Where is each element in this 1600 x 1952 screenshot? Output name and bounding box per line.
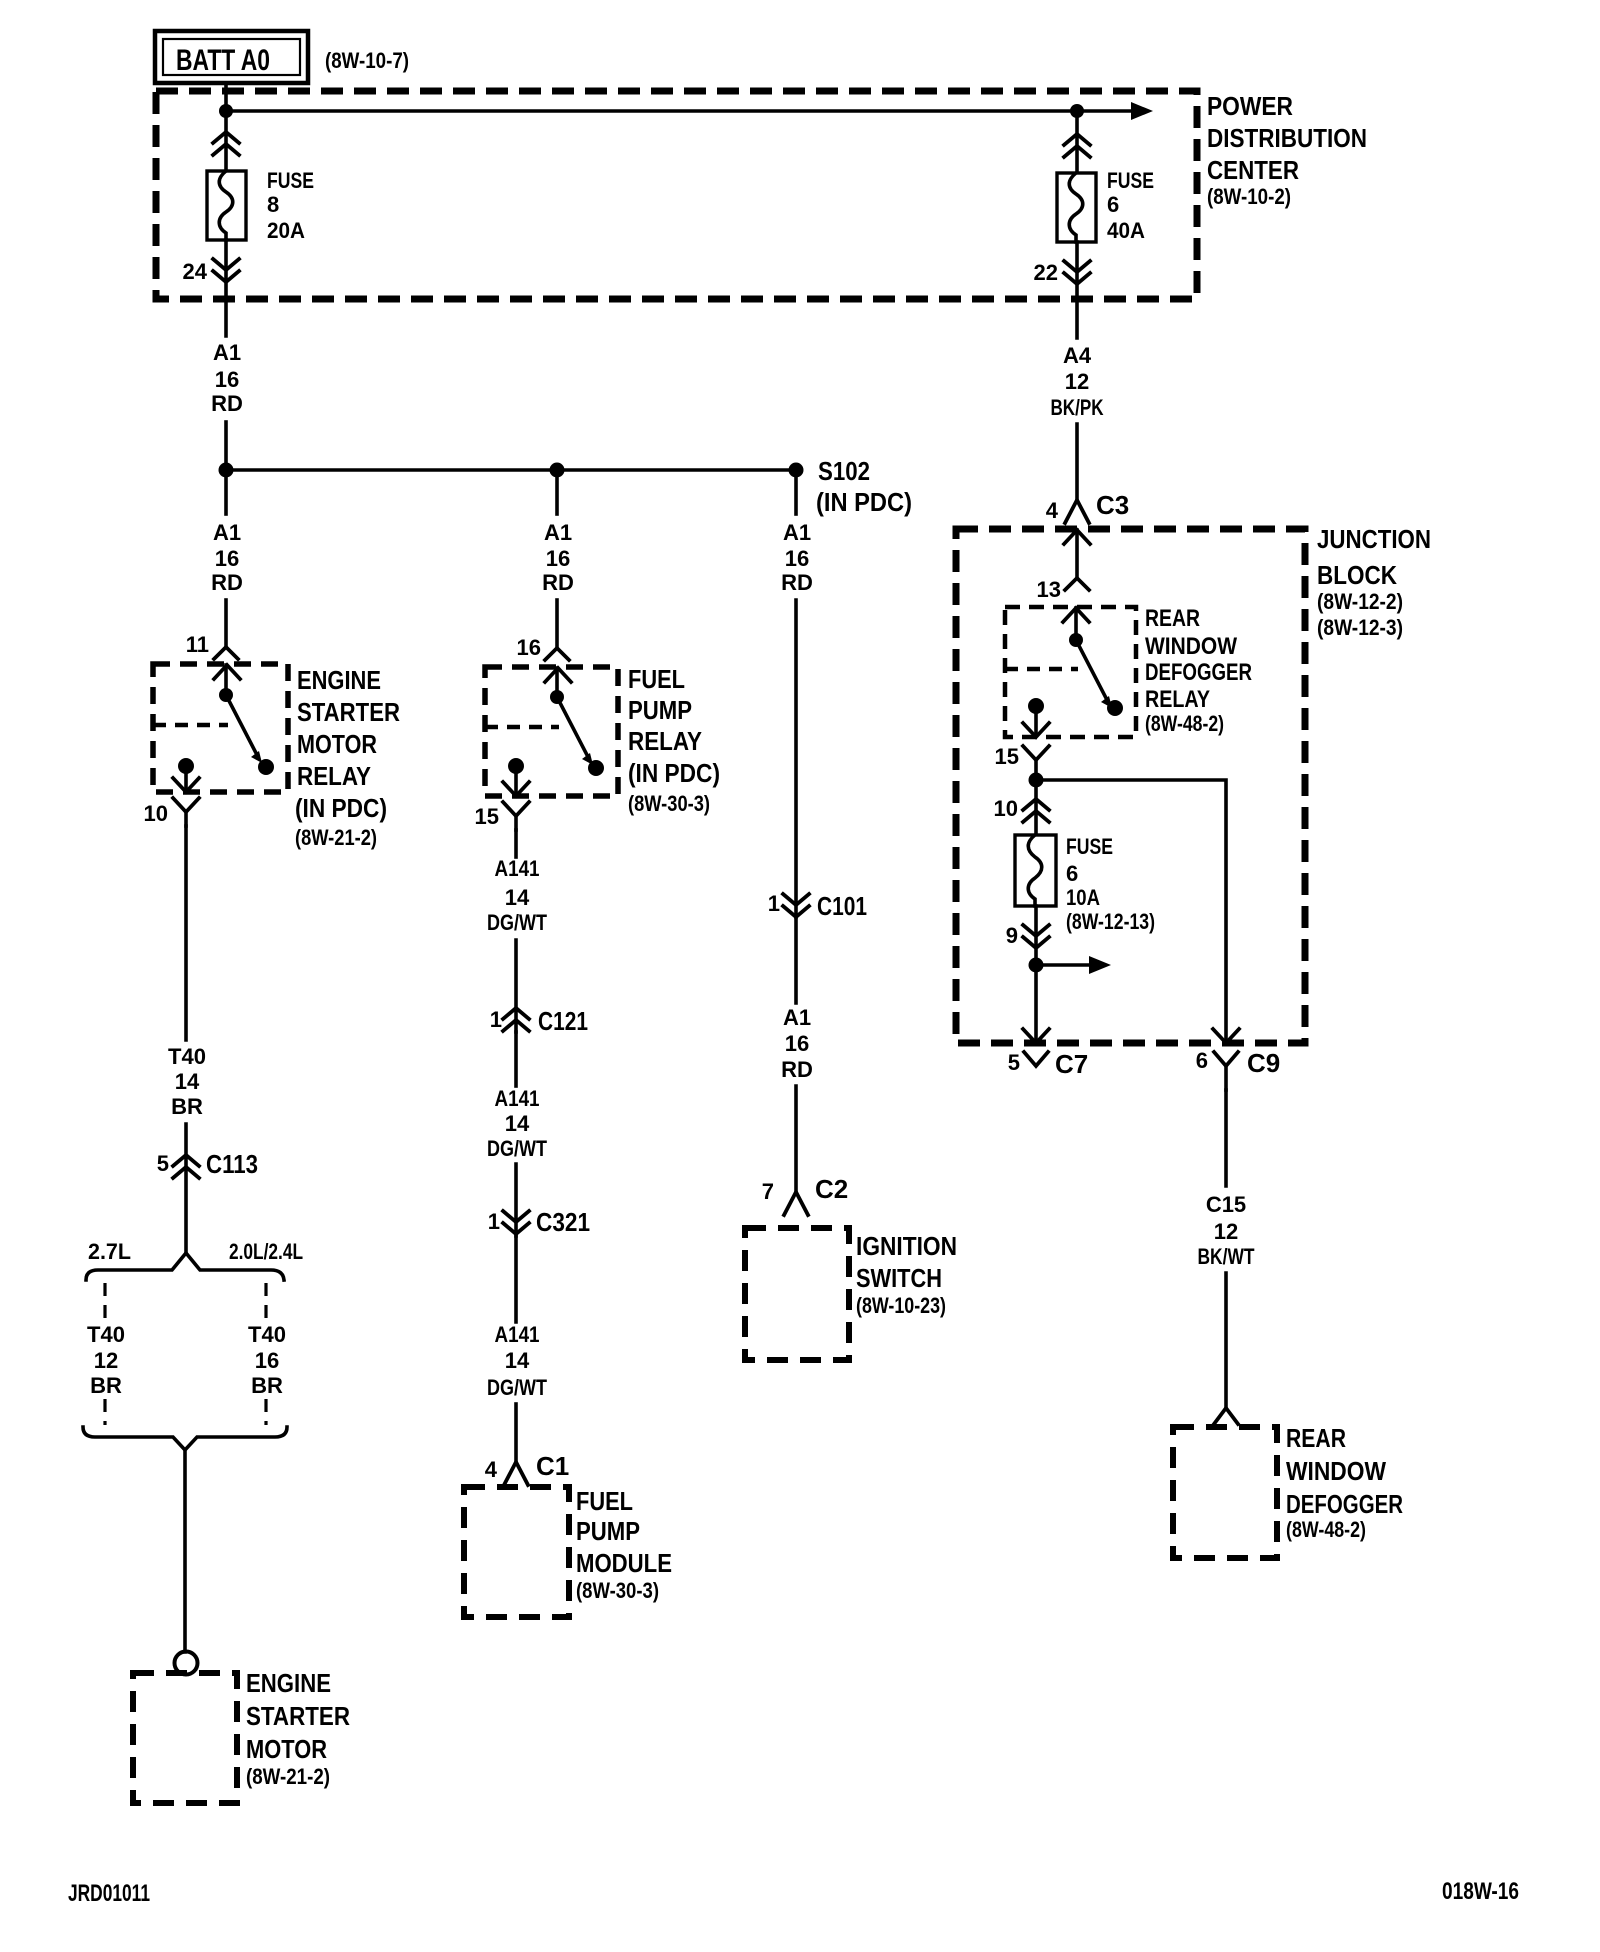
label POWER DISTRIBUTION CENTER xyxy=(1207,91,1367,209)
wire label T40 12 BR xyxy=(87,1322,125,1398)
svg-text:4: 4 xyxy=(1046,498,1059,523)
svg-text:16: 16 xyxy=(517,635,541,660)
power distribution center dashed box xyxy=(156,91,1197,299)
svg-text:16: 16 xyxy=(546,546,570,571)
label ENGINE STARTER MOTOR RELAY xyxy=(295,665,400,850)
relay switch arm xyxy=(557,697,593,765)
connector chevrons below fuse 8 (pin 24) xyxy=(213,259,239,282)
svg-text:BK/PK: BK/PK xyxy=(1051,395,1104,420)
wire from bus to fuse 6 xyxy=(1075,111,1079,173)
wire label C15 12 BK/WT xyxy=(1198,1192,1255,1269)
relay output pin dot xyxy=(508,758,524,774)
relay contact dot xyxy=(1107,700,1123,716)
svg-text:A1: A1 xyxy=(783,520,811,545)
svg-text:9: 9 xyxy=(1006,923,1018,948)
engine starter motor relay box xyxy=(153,664,288,792)
junction at right bus xyxy=(1070,104,1084,118)
wire leaving PDC right xyxy=(1075,242,1079,338)
connector fork pin 16 xyxy=(545,648,569,660)
junction at left bus xyxy=(219,104,233,118)
ring terminal xyxy=(175,1652,198,1675)
label FUEL PUMP MODULE xyxy=(576,1486,672,1603)
relay switch arm xyxy=(226,695,262,763)
connector fork pin 4 C3 xyxy=(1065,500,1089,523)
svg-text:24: 24 xyxy=(183,259,208,284)
wire label A1 16 RD (col2) xyxy=(542,520,574,595)
svg-text:(8W-48-2): (8W-48-2) xyxy=(1145,711,1224,736)
connector fork pin 13 xyxy=(1065,578,1089,590)
connector chevrons below fuse (pin 9) xyxy=(1023,925,1049,948)
wire label A141 14 DG/WT second xyxy=(487,1086,547,1161)
relay internal divider xyxy=(153,723,228,728)
svg-text:POWER: POWER xyxy=(1207,91,1293,121)
svg-text:16: 16 xyxy=(785,1031,809,1056)
svg-text:(8W-10-2): (8W-10-2) xyxy=(1207,184,1291,209)
svg-text:(8W-12-2): (8W-12-2) xyxy=(1317,589,1403,614)
svg-text:C9: C9 xyxy=(1247,1048,1280,1078)
relay pivot dot xyxy=(550,690,564,704)
wire down col1 xyxy=(184,826,188,1040)
engine starter motor box xyxy=(133,1673,237,1803)
svg-text:C3: C3 xyxy=(1096,490,1129,520)
svg-text:FUSE: FUSE xyxy=(267,168,314,193)
relay contact dot xyxy=(588,760,604,776)
wire to engine starter motor xyxy=(183,1450,187,1652)
svg-text:15: 15 xyxy=(475,804,499,829)
svg-text:WINDOW: WINDOW xyxy=(1286,1456,1386,1486)
svg-text:22: 22 xyxy=(1034,260,1058,285)
svg-text:11: 11 xyxy=(186,632,209,657)
junction block dashed box xyxy=(956,529,1305,1043)
svg-text:ENGINE: ENGINE xyxy=(246,1668,331,1698)
wire label A1 16 RD (col3) xyxy=(781,520,813,595)
relay pin arrow (pin 13 mating half) xyxy=(1063,608,1089,640)
wire to fuel pump relay xyxy=(555,600,559,648)
label REAR WINDOW DEFOGGER RELAY xyxy=(1145,605,1252,736)
relay output pin arrow down xyxy=(1023,706,1049,737)
wire stub col1 xyxy=(224,470,228,514)
svg-text:A4: A4 xyxy=(1063,343,1092,368)
svg-text:(IN PDC): (IN PDC) xyxy=(816,487,912,517)
svg-text:FUSE: FUSE xyxy=(1066,834,1113,859)
svg-text:6: 6 xyxy=(1066,861,1078,886)
svg-text:RD: RD xyxy=(211,391,243,416)
connector C113 chevrons xyxy=(173,1155,199,1178)
label IGNITION SWITCH xyxy=(856,1231,957,1318)
fuse 6 10A value label xyxy=(1066,834,1155,934)
svg-text:A141: A141 xyxy=(495,1322,540,1347)
svg-text:RELAY: RELAY xyxy=(297,761,371,791)
connector C321 chevrons xyxy=(503,1211,529,1234)
brace merge lower xyxy=(83,1427,287,1450)
relay pivot dot xyxy=(219,688,233,702)
svg-text:MOTOR: MOTOR xyxy=(297,729,377,759)
wire xyxy=(514,1032,518,1086)
connector chevrons below fuse 6 (pin 22) xyxy=(1064,261,1090,284)
wire down to splice xyxy=(224,422,228,470)
svg-text:FUSE: FUSE xyxy=(1107,168,1154,193)
svg-text:S102: S102 xyxy=(818,456,870,486)
relay internal divider xyxy=(1005,667,1078,672)
svg-text:DISTRIBUTION: DISTRIBUTION xyxy=(1207,123,1367,153)
wire to junction below fuse xyxy=(1034,906,1038,1042)
svg-text:(8W-21-2): (8W-21-2) xyxy=(295,825,377,850)
svg-text:DEFOGGER: DEFOGGER xyxy=(1286,1489,1403,1519)
connector fork pin 7 C2 xyxy=(784,1192,808,1215)
relay output pin arrow down xyxy=(173,766,199,792)
junction block entry arrow (C3 mating half) xyxy=(1064,530,1090,578)
svg-text:RD: RD xyxy=(781,570,813,595)
svg-text:8: 8 xyxy=(267,192,279,217)
fuse 8 20A xyxy=(207,171,246,240)
wire xyxy=(794,917,798,1003)
svg-text:14: 14 xyxy=(175,1069,200,1094)
svg-text:C101: C101 xyxy=(817,891,867,921)
svg-text:FUEL: FUEL xyxy=(628,664,685,694)
wire label T40 16 BR xyxy=(248,1322,286,1398)
svg-text:1: 1 xyxy=(768,891,780,916)
svg-text:10: 10 xyxy=(994,796,1018,821)
wire bus inside PDC with arrow xyxy=(226,102,1153,120)
relay pivot dot xyxy=(1069,633,1083,647)
wire xyxy=(514,940,518,1032)
svg-text:14: 14 xyxy=(505,1348,530,1373)
pin 6 arrow down at block edge xyxy=(1213,1029,1239,1043)
wire from junction to C9 branch xyxy=(1036,780,1226,1042)
connector C101 chevrons xyxy=(783,894,809,917)
wire label A141 14 DG/WT third xyxy=(487,1322,547,1400)
svg-text:C121: C121 xyxy=(538,1006,588,1036)
svg-text:5: 5 xyxy=(157,1151,169,1176)
svg-text:CENTER: CENTER xyxy=(1207,155,1299,185)
svg-text:(8W-48-2): (8W-48-2) xyxy=(1286,1517,1366,1542)
svg-text:(8W-21-2): (8W-21-2) xyxy=(246,1764,330,1789)
svg-text:WINDOW: WINDOW xyxy=(1145,633,1237,660)
svg-text:5: 5 xyxy=(1008,1050,1020,1075)
svg-text:A1: A1 xyxy=(213,520,241,545)
svg-text:SWITCH: SWITCH xyxy=(856,1263,942,1293)
wire xyxy=(514,1164,518,1236)
svg-text:14: 14 xyxy=(505,885,530,910)
svg-text:STARTER: STARTER xyxy=(297,697,400,727)
fuse 6 value label xyxy=(1107,168,1154,243)
wire label A4 12 BK/PK xyxy=(1051,343,1104,420)
svg-text:C1: C1 xyxy=(536,1451,569,1481)
wire dashed below right label xyxy=(264,1399,267,1425)
branch arrow to other circuits xyxy=(1036,956,1111,974)
svg-text:MODULE: MODULE xyxy=(576,1548,672,1578)
svg-text:A141: A141 xyxy=(495,1086,540,1111)
svg-text:12: 12 xyxy=(1214,1219,1238,1244)
svg-text:16: 16 xyxy=(785,546,809,571)
svg-text:7: 7 xyxy=(762,1179,774,1204)
svg-text:ENGINE: ENGINE xyxy=(297,665,381,695)
svg-text:14: 14 xyxy=(505,1111,530,1136)
svg-text:1: 1 xyxy=(488,1209,500,1234)
svg-text:6: 6 xyxy=(1196,1048,1208,1073)
connector fork pin 4 C1 xyxy=(504,1462,528,1485)
wire label T40 14 BR xyxy=(168,1044,206,1119)
wire to rear window defogger xyxy=(1224,1273,1228,1408)
junction dot in junction block xyxy=(1029,773,1044,788)
svg-text:RD: RD xyxy=(781,1057,813,1082)
svg-text:JUNCTION: JUNCTION xyxy=(1317,524,1431,554)
svg-text:(8W-30-3): (8W-30-3) xyxy=(576,1578,659,1603)
svg-text:018W-16: 018W-16 xyxy=(1442,1878,1519,1905)
wire 2.0L/2.4L branch dashed xyxy=(264,1283,267,1318)
wire label A1 16 RD (to ignition) xyxy=(781,1005,813,1082)
svg-text:BATT A0: BATT A0 xyxy=(176,44,270,77)
svg-text:MOTOR: MOTOR xyxy=(246,1734,327,1764)
svg-text:A141: A141 xyxy=(495,856,540,881)
svg-text:A1: A1 xyxy=(213,340,241,365)
svg-text:2.7L: 2.7L xyxy=(88,1239,131,1264)
svg-text:C321: C321 xyxy=(536,1207,590,1237)
svg-text:DEFOGGER: DEFOGGER xyxy=(1145,659,1252,686)
svg-text:RELAY: RELAY xyxy=(1145,686,1210,713)
svg-text:A1: A1 xyxy=(783,1005,811,1030)
svg-text:T40: T40 xyxy=(87,1322,125,1347)
junction dot middle xyxy=(550,463,565,478)
wire to fuel pump module xyxy=(514,1404,518,1462)
svg-text:RD: RD xyxy=(211,570,243,595)
label REAR WINDOW DEFOGGER xyxy=(1286,1423,1403,1542)
svg-text:(IN PDC): (IN PDC) xyxy=(628,758,720,788)
relay output pin dot xyxy=(178,758,194,774)
svg-text:RD: RD xyxy=(542,570,574,595)
svg-text:DG/WT: DG/WT xyxy=(487,1136,547,1161)
label JUNCTION BLOCK xyxy=(1317,524,1431,640)
svg-text:DG/WT: DG/WT xyxy=(487,1375,547,1400)
svg-text:1: 1 xyxy=(490,1007,502,1032)
svg-text:12: 12 xyxy=(1065,369,1089,394)
svg-text:16: 16 xyxy=(215,546,239,571)
fuel pump module box xyxy=(464,1487,569,1617)
pin 5 arrow down at block edge xyxy=(1023,1029,1049,1043)
wire down to C101 xyxy=(794,600,798,917)
wire label A1 16 RD (left, below PDC) xyxy=(211,340,243,416)
svg-text:6: 6 xyxy=(1107,192,1119,217)
splice bus S102 xyxy=(226,468,796,472)
node S102 label xyxy=(816,456,912,517)
svg-text:PUMP: PUMP xyxy=(628,695,692,725)
junction dot below fuse xyxy=(1029,958,1044,973)
label FUEL PUMP RELAY xyxy=(628,664,720,816)
svg-text:4: 4 xyxy=(485,1457,498,1482)
svg-text:REAR: REAR xyxy=(1145,605,1200,632)
wire stub col3 xyxy=(794,470,798,514)
wire from bus to fuse 8 xyxy=(224,111,228,171)
connector fork pin 11 xyxy=(214,647,238,659)
node BATT A0 feed box xyxy=(155,31,308,83)
wire to ignition switch xyxy=(794,1086,798,1192)
svg-text:JRD01011: JRD01011 xyxy=(68,1880,150,1907)
svg-text:13: 13 xyxy=(1037,577,1061,602)
relay internal divider xyxy=(485,725,559,730)
svg-text:DG/WT: DG/WT xyxy=(487,910,547,935)
wire from BATT A0 into PDC xyxy=(224,83,228,111)
svg-text:C113: C113 xyxy=(206,1149,258,1179)
wire 2.7L branch dashed xyxy=(103,1283,106,1318)
svg-text:REAR: REAR xyxy=(1286,1423,1346,1453)
svg-text:FUEL: FUEL xyxy=(576,1486,633,1516)
wire down col2 xyxy=(514,830,518,857)
svg-text:BK/WT: BK/WT xyxy=(1198,1244,1255,1269)
svg-text:16: 16 xyxy=(255,1348,279,1373)
svg-text:(8W-30-3): (8W-30-3) xyxy=(628,791,710,816)
fuse 8 value label xyxy=(267,168,314,243)
svg-text:20A: 20A xyxy=(267,218,305,243)
wire down to C3 xyxy=(1075,424,1079,500)
relay output pin dot xyxy=(1028,698,1044,714)
connector chevrons above fuse 8 xyxy=(213,132,239,155)
ignition switch box xyxy=(745,1228,849,1360)
svg-text:40A: 40A xyxy=(1107,218,1145,243)
wire xyxy=(514,1236,518,1322)
wire dashed below left label xyxy=(103,1399,106,1425)
svg-text:RELAY: RELAY xyxy=(628,726,702,756)
connector fork C9 xyxy=(1214,1052,1238,1090)
wire label A141 14 DG/WT xyxy=(487,856,547,935)
svg-text:BR: BR xyxy=(90,1373,122,1398)
relay switch arm xyxy=(1076,640,1112,708)
connector chevrons above fuse 6 xyxy=(1064,134,1090,157)
wire down to defogger xyxy=(1224,1090,1228,1186)
svg-text:BR: BR xyxy=(251,1373,283,1398)
svg-text:(8W-12-13): (8W-12-13) xyxy=(1066,909,1155,934)
svg-text:(IN PDC): (IN PDC) xyxy=(295,793,387,823)
svg-text:15: 15 xyxy=(995,744,1019,769)
svg-text:12: 12 xyxy=(94,1348,118,1373)
svg-text:C2: C2 xyxy=(815,1174,848,1204)
svg-text:STARTER: STARTER xyxy=(246,1701,350,1731)
wire stub col2 xyxy=(555,470,559,514)
rear window defogger box xyxy=(1173,1427,1277,1558)
wire from junction down to fuse xyxy=(1034,780,1038,835)
relay pin arrow (pin 11 mating half) xyxy=(214,665,240,695)
wire leaving PDC left xyxy=(224,240,228,336)
wire to relay xyxy=(224,600,228,647)
label ENGINE STARTER MOTOR xyxy=(246,1668,350,1789)
relay output pin arrow down xyxy=(503,766,529,796)
svg-text:A1: A1 xyxy=(544,520,572,545)
svg-text:PUMP: PUMP xyxy=(576,1516,640,1546)
fuse 6 40A xyxy=(1057,173,1096,242)
svg-text:2.0L/2.4L: 2.0L/2.4L xyxy=(229,1239,303,1264)
rear window defogger relay box xyxy=(1005,607,1136,737)
svg-text:(8W-12-3): (8W-12-3) xyxy=(1317,615,1403,640)
fuel pump relay box xyxy=(485,667,618,796)
svg-text:10: 10 xyxy=(144,801,168,826)
brace split upper xyxy=(86,1253,284,1280)
svg-text:(8W-10-23): (8W-10-23) xyxy=(856,1293,946,1318)
connector fork at defogger xyxy=(1214,1408,1238,1424)
connector fork pin 15 xyxy=(1023,746,1049,780)
wire xyxy=(184,1124,188,1252)
svg-text:10A: 10A xyxy=(1066,885,1100,910)
svg-text:T40: T40 xyxy=(248,1322,286,1347)
svg-text:IGNITION: IGNITION xyxy=(856,1231,957,1261)
svg-text:T40: T40 xyxy=(168,1044,206,1069)
relay contact dot xyxy=(258,759,274,775)
connector fork C7 xyxy=(1024,1052,1048,1066)
fuse 6 10A xyxy=(1015,835,1056,906)
connector fork pin 10 xyxy=(173,798,199,826)
svg-text:C15: C15 xyxy=(1206,1192,1246,1217)
relay pin arrow (pin 16 mating half) xyxy=(545,668,571,697)
junction dot left xyxy=(219,463,234,478)
svg-text:(8W-10-7): (8W-10-7) xyxy=(325,48,409,73)
svg-text:16: 16 xyxy=(215,367,239,392)
wire label A1 16 RD (col1) xyxy=(211,520,243,595)
connector fork pin 15 xyxy=(503,802,529,830)
connector C121 chevrons xyxy=(503,1008,529,1031)
connector chevrons above fuse (pin 10) xyxy=(1023,799,1049,822)
svg-text:BLOCK: BLOCK xyxy=(1317,560,1397,590)
junction dot S102 xyxy=(789,463,804,478)
svg-text:BR: BR xyxy=(171,1094,203,1119)
svg-text:C7: C7 xyxy=(1055,1049,1088,1079)
